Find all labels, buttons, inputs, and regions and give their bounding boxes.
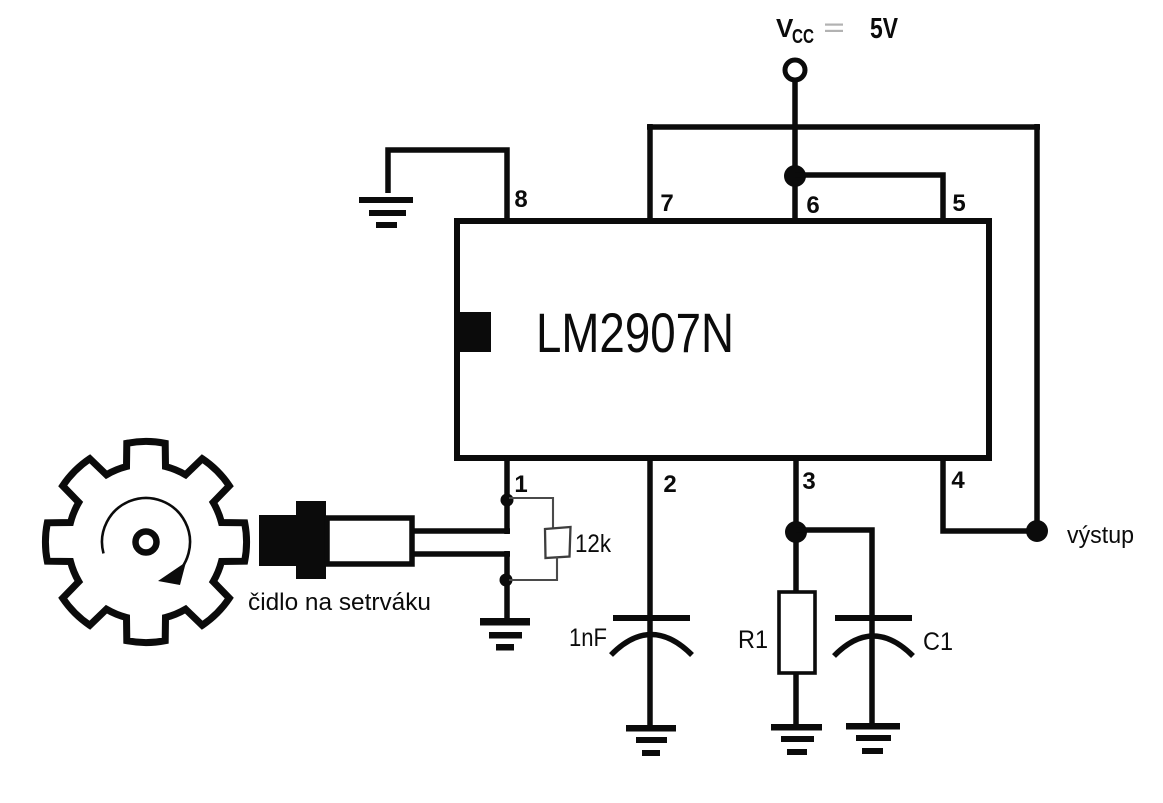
wire pin 8 to ground [388, 150, 507, 221]
op-amp IC U1 LM2907N body [457, 221, 989, 458]
gear hub circle [136, 532, 157, 553]
rotation arrow head [158, 562, 186, 585]
ground G4 (R1) [771, 724, 822, 755]
svg-text:LM2907N: LM2907N [536, 301, 734, 364]
wire pin3 to C1 [796, 530, 872, 618]
svg-text:12k: 12k [575, 530, 611, 558]
capacitor C1 top plate [835, 615, 912, 621]
svg-text:1: 1 [514, 471, 527, 498]
svg-text:výstup: výstup [1067, 522, 1134, 549]
wire right rail vertical [1034, 124, 1040, 531]
wire pin 3 down [793, 458, 799, 592]
svg-text:5V: 5V [870, 13, 898, 45]
svg-text:5: 5 [952, 190, 965, 217]
svg-text:2: 2 [663, 471, 676, 498]
svg-text:3: 3 [802, 468, 815, 495]
svg-text:čidlo na setrváku: čidlo na setrváku [248, 589, 431, 616]
wire sensor bottom lead [414, 551, 510, 557]
resistor R1 body [779, 592, 815, 673]
wire 1nF to ground [647, 620, 653, 726]
svg-text:1nF: 1nF [569, 624, 607, 652]
svg-text:6: 6 [806, 192, 819, 219]
wire top rail horizontal [647, 124, 1040, 130]
ground G2 (sensor) [480, 618, 530, 651]
svg-text:8: 8 [514, 186, 527, 213]
junction dot node vystup [1026, 520, 1048, 542]
wire pin 7 riser [647, 124, 653, 221]
gear wheel [45, 441, 246, 642]
wire pin 2 down [647, 458, 653, 617]
junction dot node pin3 [785, 521, 807, 543]
ground G3 (1nF) [626, 725, 676, 756]
sensor body (magnet, black) [259, 501, 326, 579]
svg-text:CC: CC [792, 26, 814, 48]
wire 12k resistor top lead [509, 498, 553, 528]
ground G5 (C1) [846, 723, 900, 754]
wire R1 bottom lead [793, 673, 799, 726]
junction dot node Vcc/pin6 [784, 165, 806, 187]
pin 1 marker square [457, 312, 491, 352]
pin number labels [514, 186, 965, 498]
rotation arrow arc [102, 498, 190, 579]
svg-text:C1: C1 [923, 628, 953, 656]
wire pin 6 to pin 5 [795, 175, 943, 221]
sensor coil (white cylinder) [327, 518, 412, 564]
junction dot node pin1/sensor [501, 494, 514, 507]
svg-text:7: 7 [660, 190, 673, 217]
junction dot node sensor/ground [500, 574, 513, 587]
wire 12k resistor bottom lead [509, 557, 557, 580]
wire pin 1 down [504, 458, 510, 534]
capacitor 1nF curved plate [611, 635, 692, 656]
resistor 12k body [545, 527, 571, 558]
power terminal Vcc [785, 60, 805, 80]
wire Vcc vertical to pin 6 [792, 81, 798, 221]
ground G1 (top left) [359, 197, 413, 228]
wire sensor top lead [414, 528, 510, 534]
wire pin 4 to vystup [943, 458, 1037, 531]
svg-text:R1: R1 [738, 626, 768, 654]
svg-text:4: 4 [951, 467, 965, 494]
label Vcc [776, 13, 898, 48]
wire C1 to ground [869, 620, 875, 725]
wire sensor return to ground [504, 551, 510, 621]
capacitor 1nF top plate [613, 615, 690, 621]
capacitor C1 curved plate [834, 636, 913, 656]
